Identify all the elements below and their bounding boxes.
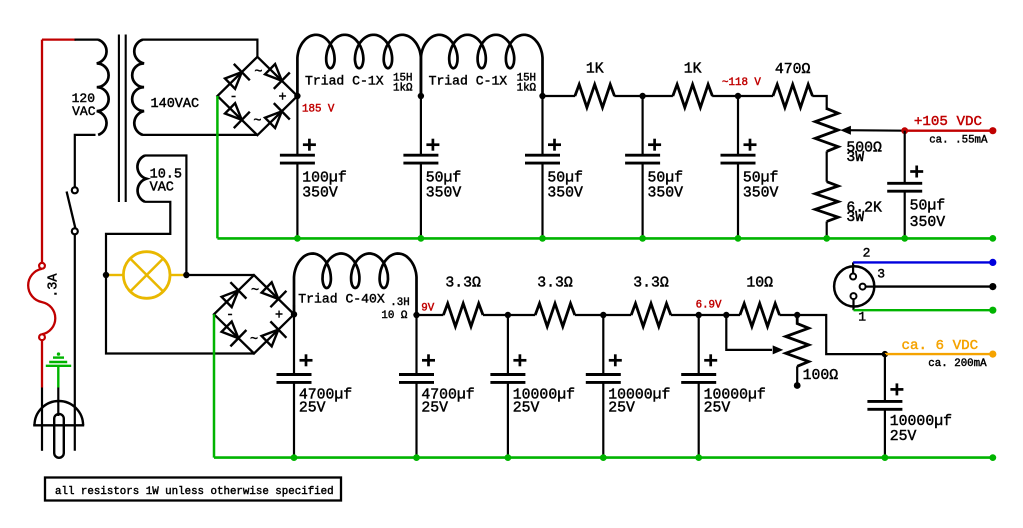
svg-text:1kΩ: 1kΩ [393, 82, 413, 94]
plug P1 base [33, 424, 84, 426]
terminal pin 1 (green dot) [989, 307, 996, 314]
wire lamp right lead (orange) [170, 274, 184, 276]
svg-text:-: - [229, 90, 237, 105]
node ca. 6 VDC junction [882, 351, 888, 357]
transformer T1 secondary winding (10.5 VAC) [137, 156, 146, 202]
resistor R1 1K [575, 85, 615, 108]
wire bridge B2 minus to ground rail (green) [213, 314, 216, 457]
wire 6.2K to ground rail [826, 222, 828, 239]
ground node bottom rail x=884 [882, 454, 889, 461]
ground node top rail x=642 [639, 235, 646, 242]
svg-text:3.3Ω: 3.3Ω [633, 275, 669, 291]
earth ground dot [57, 352, 60, 355]
wire pot 100Ω lower lead [796, 366, 798, 383]
ground rail bottom (green) [214, 456, 993, 459]
wire lamp node to bridge B2 ac top [186, 274, 254, 276]
wire bridge B2 plus up to L3 [293, 305, 295, 314]
switch S1 top contact [72, 187, 78, 193]
svg-text:10000µf: 10000µf [890, 414, 952, 430]
wire R8 to pot node [780, 314, 798, 316]
diode B1b (top-right) [265, 64, 282, 81]
terminal pin 2 (blue dot) [989, 259, 996, 266]
node bottom bus x=294 [291, 311, 297, 317]
ground node top rail x=297 [294, 235, 301, 242]
ground node bottom rail x=603 [600, 454, 607, 461]
wire switch to plug [74, 234, 76, 450]
wire secondary bottom to bridge B1 [143, 134, 258, 136]
svg-text:+105 VDC: +105 VDC [914, 114, 982, 130]
ground rail top (green) [217, 237, 992, 240]
svg-text:25V: 25V [299, 400, 326, 416]
ground node top rail x=420 [418, 235, 425, 242]
wire primary bottom to switch [75, 135, 96, 187]
wire bridge B1 minus to ground rail (green) [216, 96, 219, 238]
resistor R6 3.3Ω [535, 304, 575, 327]
svg-text:VAC: VAC [72, 104, 96, 119]
svg-text:3.3Ω: 3.3Ω [537, 275, 573, 291]
wire pin 2 (blue) [853, 261, 993, 263]
svg-text:100µf: 100µf [302, 171, 346, 187]
svg-text:ca. 6 VDC: ca. 6 VDC [902, 338, 979, 354]
potentiometer 500Ω body [815, 109, 838, 152]
svg-text:50µf: 50µf [547, 171, 583, 187]
wire pin 3 (black) [874, 285, 993, 287]
svg-text:~: ~ [254, 66, 262, 81]
svg-text:ca. 200mA: ca. 200mA [928, 358, 987, 370]
wire pin 3 stub [866, 286, 875, 288]
wire pin 1 stub [852, 299, 854, 310]
svg-text:10Ω: 10Ω [746, 275, 773, 291]
ground node top rail x=826 [823, 235, 830, 242]
svg-text:100Ω: 100Ω [803, 368, 839, 384]
wire R1 to node [614, 95, 673, 97]
connector J1 pin 2 [850, 274, 856, 280]
svg-text:140VAC: 140VAC [151, 97, 200, 112]
ground node bottom rail x=698 [695, 454, 702, 461]
note box [45, 478, 341, 501]
wiper arrow 100Ω [726, 315, 772, 350]
svg-text:.3H: .3H [390, 297, 409, 309]
node bottom bus x=797 [794, 312, 800, 318]
svg-text:25V: 25V [513, 400, 540, 416]
node bottom bus x=726 [723, 312, 729, 318]
resistor R4 6.2K [815, 182, 838, 222]
node lamp left [103, 272, 109, 278]
transformer T1 primary winding (120 VAC) [97, 40, 109, 135]
capacitor 50µf 350V at x=420 [420, 96, 422, 155]
node top bus x=738 [735, 93, 741, 99]
ground node bottom rail x=416 [413, 454, 420, 461]
node top bus x=420 [418, 93, 424, 99]
capacitor 10000µf 25V at x=507 [507, 315, 509, 375]
wire ground stem (green) [57, 366, 59, 388]
transformer T1 secondary winding (140VAC) [132, 40, 144, 135]
plug P1 dome [35, 401, 84, 425]
svg-text:2: 2 [863, 246, 871, 261]
fuse F1 .3A bottom terminal [39, 334, 45, 340]
wire R3 to potentiometer [812, 96, 826, 110]
capacitor 100µf 350V at x=297 [296, 96, 298, 155]
transformer T1 core [118, 35, 120, 203]
svg-text:50µf: 50µf [743, 171, 779, 187]
diode B2a (top-left) [222, 290, 239, 307]
wire R5 to node [483, 314, 535, 316]
diode B1a (top-left) [225, 72, 242, 89]
terminal 100Ω open end [794, 382, 801, 389]
svg-text:50µf: 50µf [648, 171, 684, 187]
wire pot to 6.2K [826, 151, 828, 181]
ground node top rail x=992 [989, 235, 996, 242]
svg-text:25V: 25V [890, 429, 917, 445]
svg-text:9V: 9V [421, 303, 434, 315]
wire bottom bus L3 to R5 [417, 314, 444, 316]
svg-text:VAC: VAC [150, 180, 174, 195]
capacitor 4700µf 25V at x=416 [415, 315, 417, 375]
diode B2c (bottom-left) [222, 322, 239, 339]
diode B1c (bottom-left) [225, 103, 242, 120]
diode B2d (bottom-right) [262, 330, 279, 347]
svg-text:3: 3 [877, 267, 885, 282]
lamp DS1 cross [130, 259, 163, 292]
capacitor 50µf 350V output [904, 131, 906, 184]
svg-text:~: ~ [253, 115, 261, 130]
wire AC hot (red) top [42, 38, 76, 40]
svg-text:1: 1 [858, 310, 866, 325]
svg-text:all resistors 1W unless otherw: all resistors 1W unless otherwise specif… [55, 486, 334, 498]
bridge rectifier B2 body [214, 275, 294, 353]
wire R2 to node [712, 95, 773, 97]
svg-text:3W: 3W [846, 210, 864, 226]
svg-text:350V: 350V [743, 186, 779, 202]
svg-text:+: + [278, 90, 286, 105]
svg-text:-: - [226, 308, 234, 323]
wiper arrow 500Ω [845, 129, 905, 132]
plug P1 ground pin [54, 414, 64, 458]
terminal +105 VDC (red dot) [989, 127, 996, 134]
capacitor 10000µf 25V at x=698 [698, 315, 700, 375]
fuse F1 .3A top terminal [39, 263, 45, 269]
svg-text:.3A: .3A [46, 273, 61, 298]
wire R7 to node [671, 314, 740, 316]
svg-text:Triad C-1X: Triad C-1X [429, 74, 508, 89]
wire R6 to node [575, 314, 631, 316]
wire top to primary [75, 38, 99, 40]
svg-text:350V: 350V [648, 186, 684, 202]
node lamp right [183, 272, 189, 278]
svg-text:470Ω: 470Ω [775, 62, 811, 78]
earth ground bar 2 [49, 361, 67, 363]
node +105 VDC junction (red) [901, 127, 908, 134]
diode B1d (bottom-right) [265, 111, 282, 128]
svg-text:1K: 1K [586, 62, 604, 78]
wire pot node to output node [797, 315, 885, 354]
svg-text:350V: 350V [426, 186, 462, 202]
svg-text:350V: 350V [910, 215, 946, 231]
capacitor 50µf 350V at x=642 [641, 96, 643, 155]
svg-text:Triad C-1X: Triad C-1X [305, 74, 384, 89]
node top bus x=542 [539, 93, 545, 99]
diode B2b (top-right) [262, 282, 279, 299]
resistor R7 3.3Ω [631, 304, 671, 327]
svg-text:3W: 3W [846, 150, 864, 166]
terminal pin 3 (black dot) [989, 283, 996, 290]
svg-text:350V: 350V [547, 186, 583, 202]
node bottom bus x=416 [413, 312, 419, 318]
inductor L3 Triad C-40X [294, 254, 417, 316]
resistor R2 1K [673, 85, 713, 108]
wire 10.5VAC top to lamp node [145, 156, 187, 276]
earth ground bar 3 [46, 365, 71, 367]
ground node top rail x=542 [539, 235, 546, 242]
wire fuse to plug (black) [41, 388, 43, 451]
potentiometer 100Ω body [786, 315, 809, 366]
connector J1 pin 1 [851, 293, 857, 299]
bridge rectifier B1 body [217, 57, 297, 135]
earth ground bar 1 [53, 356, 64, 358]
lamp DS1 body [123, 252, 170, 299]
svg-text:+: + [275, 309, 283, 324]
wire ground stem (black) [57, 388, 59, 417]
svg-text:~: ~ [251, 284, 259, 299]
ground node bottom rail x=294 [291, 454, 298, 461]
inductor L2 Triad C-1X [421, 35, 543, 96]
svg-text:1K: 1K [684, 62, 702, 78]
wire top bus L2 to R1 [543, 95, 576, 97]
wire secondary top to bridge B1 [143, 40, 258, 57]
inductor L1 Triad C-1X [297, 35, 421, 96]
svg-text:350V: 350V [302, 186, 338, 202]
svg-text:25V: 25V [704, 400, 731, 416]
ground node top rail x=738 [735, 235, 742, 242]
ground node bottom rail x=507 [505, 454, 512, 461]
node bottom bus x=507 [505, 312, 511, 318]
svg-text:25V: 25V [421, 400, 448, 416]
wire lamp left lead (orange) [108, 274, 124, 276]
switch S1 blade [67, 192, 76, 229]
wire fuse to plug (red) [41, 340, 43, 387]
wire AC hot (red) left vertical [41, 40, 43, 263]
wire ca. 6 VDC (orange) [885, 353, 993, 355]
svg-text:6.9V: 6.9V [696, 300, 722, 312]
wire lamp left to bridge B2 ac bottom [106, 275, 254, 354]
node bottom bus x=603 [600, 312, 606, 318]
svg-text:50µf: 50µf [910, 199, 946, 215]
wire pin 1 (green) [854, 309, 993, 311]
connector J1 pin 3 [860, 284, 866, 290]
wire 10.5VAC bottom to lamp [106, 202, 170, 275]
svg-text:50µf: 50µf [426, 171, 462, 187]
connector J1 shell [834, 266, 874, 306]
svg-text:185 V: 185 V [302, 104, 335, 116]
node top bus x=297 [294, 93, 300, 99]
capacitor 10000µf 25V at x=603 [602, 315, 604, 375]
node bottom bus x=698 [696, 312, 702, 318]
svg-text:25V: 25V [608, 400, 635, 416]
resistor R3 470Ω [773, 85, 813, 108]
wire pin 2 stub [852, 262, 854, 273]
ground node top rail x=904 [901, 235, 908, 242]
capacitor 4700µf 25V at x=294 [293, 315, 295, 375]
svg-text:~: ~ [250, 333, 258, 348]
svg-text:~118 V: ~118 V [722, 77, 761, 89]
capacitor 50µf 350V at x=738 [737, 96, 739, 155]
svg-text:ca. .55mA: ca. .55mA [929, 135, 988, 147]
wire +105 VDC (red) [905, 129, 993, 131]
svg-text:3.3Ω: 3.3Ω [445, 275, 481, 291]
ground node bottom rail x=992 [989, 454, 996, 461]
node top bus x=642 [639, 93, 645, 99]
svg-text:10 Ω: 10 Ω [381, 310, 407, 322]
svg-text:1kΩ: 1kΩ [517, 82, 537, 94]
switch S1 bottom contact [72, 228, 78, 234]
terminal ca. 6 VDC (orange dot) [989, 351, 996, 358]
resistor R8 10Ω [740, 304, 780, 327]
fuse F1 .3A body [28, 269, 55, 335]
capacitor 50µf 350V at x=542 [541, 96, 543, 155]
svg-text:Triad C-40X: Triad C-40X [298, 292, 385, 307]
resistor R5 3.3Ω [443, 304, 483, 327]
capacitor 10000µf 25V output [884, 354, 886, 401]
